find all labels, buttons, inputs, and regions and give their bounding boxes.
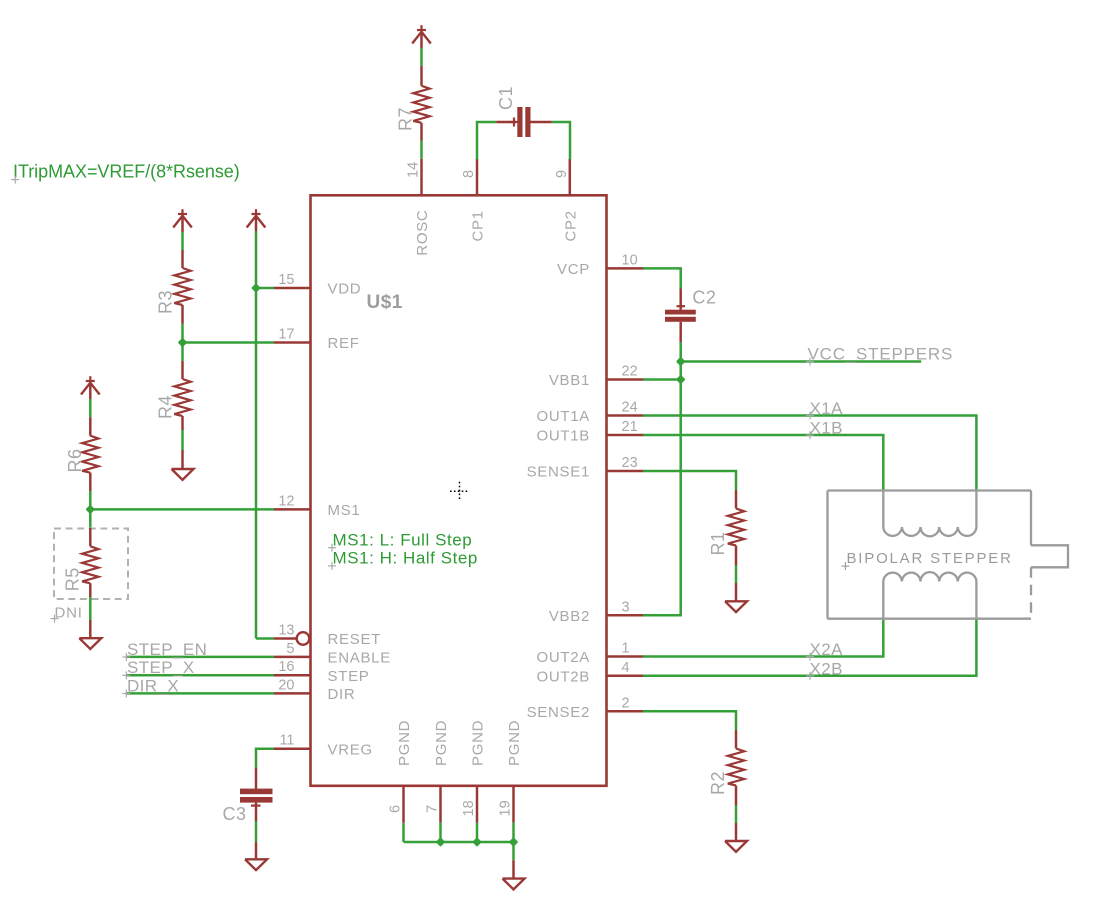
svg-text:ENABLE: ENABLE	[328, 650, 391, 667]
wire net X1B pin 21 to stepper	[643, 435, 883, 491]
pin 11 VREG	[274, 747, 311, 750]
svg-text:OUT2A: OUT2A	[536, 649, 590, 666]
VCC symbol above R7	[417, 29, 426, 31]
svg-text:16: 16	[278, 659, 294, 675]
svg-text:18: 18	[461, 800, 477, 816]
resistor R4	[181, 361, 184, 379]
wire net STEP_EN	[126, 656, 274, 659]
svg-text:11: 11	[279, 733, 294, 749]
svg-text:12: 12	[278, 493, 294, 509]
ground below PGND bus	[503, 879, 525, 890]
pin 15 VDD	[274, 287, 311, 290]
wire R4 to ground	[181, 430, 184, 450]
op-amp U1 IC body A4983 stepper driver	[311, 195, 607, 786]
resistor R1	[735, 490, 738, 509]
svg-text:X1A: X1A	[810, 399, 844, 418]
svg-text:22: 22	[622, 364, 638, 380]
capacitor C2	[679, 289, 682, 310]
pin 6 PGND	[402, 786, 405, 823]
svg-text:VBB1: VBB1	[549, 372, 590, 389]
node REF junction	[178, 338, 188, 348]
svg-text:C2: C2	[692, 288, 716, 308]
DNI dashed box around R5	[54, 529, 128, 600]
node VBB1 junction	[676, 375, 686, 385]
svg-text:X1B: X1B	[810, 419, 843, 438]
svg-text:8: 8	[461, 170, 477, 178]
svg-text:U$1: U$1	[367, 292, 403, 313]
node MS1 junction	[85, 505, 95, 515]
wire REF junction to pin 17	[183, 341, 275, 344]
svg-text:R3: R3	[156, 290, 176, 314]
pin 5 ENABLE	[274, 656, 311, 659]
svg-text:23: 23	[622, 455, 638, 471]
wire pin 8 to C1	[477, 122, 496, 160]
svg-text:R5: R5	[63, 567, 83, 591]
node PGND junction pin 18	[472, 837, 482, 847]
svg-text:9: 9	[554, 170, 570, 178]
svg-text:5: 5	[286, 641, 294, 657]
pin 14 ROSC	[420, 159, 423, 196]
wire net DIR_X	[126, 692, 274, 695]
wire C3 to ground	[255, 821, 258, 842]
pin 17 REF	[274, 341, 311, 344]
capacitor C1	[496, 121, 516, 124]
resistor R5	[89, 528, 92, 546]
node VCC_STEPPERS junction	[676, 357, 686, 367]
wire junction to R5	[89, 509, 92, 528]
ground below R2	[725, 841, 747, 852]
pin 3 VBB2	[607, 614, 644, 617]
wire junction to pin 15	[256, 287, 274, 290]
svg-text:19: 19	[498, 800, 514, 816]
svg-text:7: 7	[425, 805, 441, 813]
wire pin 23 SENSE1 to R1	[643, 471, 736, 490]
pin 7 PGND	[439, 786, 442, 823]
wire R7 to pin 14	[420, 141, 423, 159]
wire PGND bus	[402, 823, 405, 842]
wire pin 10 to C2	[643, 268, 681, 288]
pin 16 STEP	[274, 674, 311, 677]
svg-text:ROSC: ROSC	[414, 210, 431, 256]
svg-text:DIR: DIR	[328, 686, 356, 703]
svg-text:PGND: PGND	[433, 720, 450, 766]
svg-text:6: 6	[388, 805, 404, 813]
svg-text:R2: R2	[708, 771, 728, 795]
svg-text:VBB2: VBB2	[549, 608, 590, 625]
wire pin 11 to C3	[256, 749, 274, 768]
wire R3 to REF junction	[181, 324, 184, 343]
wire R2 to ground	[735, 805, 738, 823]
wire VDD rail to pin 13 RESET	[256, 637, 274, 640]
svg-text:OUT2B: OUT2B	[536, 668, 590, 685]
wire R1 to ground	[735, 565, 738, 583]
wire VCC rail stub	[255, 216, 258, 231]
wire pin 22 to VBB rail	[643, 378, 681, 381]
wire C1 to pin 9	[552, 122, 570, 160]
svg-text:OUT1A: OUT1A	[536, 408, 590, 425]
pin 1 OUT2A	[607, 655, 644, 658]
svg-text:OUT1B: OUT1B	[536, 428, 590, 445]
svg-text:24: 24	[622, 400, 638, 416]
pin 10 VCP	[607, 267, 644, 270]
svg-text:1: 1	[622, 641, 630, 657]
svg-text:PGND: PGND	[396, 720, 413, 766]
svg-text:ITripMAX=VREF/(8*Rsense): ITripMAX=VREF/(8*Rsense)	[13, 162, 240, 182]
wire junction to R4	[181, 343, 184, 362]
svg-text:C3: C3	[223, 804, 247, 824]
svg-text:STEP_X: STEP_X	[127, 658, 195, 677]
svg-text:MS1: MS1	[328, 502, 361, 519]
svg-text:13: 13	[278, 623, 294, 639]
wire net X2B pin 4 to stepper	[643, 619, 976, 676]
svg-text:R1: R1	[708, 531, 728, 555]
stepper coil 1 (top winding)	[883, 491, 976, 537]
pin 21 OUT1B	[607, 434, 644, 437]
node PGND junction pin 7	[436, 837, 446, 847]
svg-text:3: 3	[622, 599, 630, 615]
capacitor C3	[255, 768, 258, 789]
wire PGND bus to ground	[512, 842, 515, 860]
node VDD-pin15 junction	[251, 283, 261, 293]
wire R5 to ground	[89, 597, 92, 620]
resistor R7	[420, 66, 423, 86]
svg-text:RESET: RESET	[328, 631, 382, 648]
ground below R5	[79, 638, 101, 649]
resistor R6	[89, 417, 92, 436]
wire net STEP_X	[126, 674, 274, 677]
svg-text:X2B: X2B	[810, 659, 843, 678]
resistor R3	[181, 250, 184, 268]
svg-text:MS1: L: Full Step: MS1: L: Full Step	[333, 531, 473, 550]
wire net X1A pin 24 to stepper	[643, 416, 976, 491]
svg-text:MS1: H: Half Step: MS1: H: Half Step	[333, 548, 478, 567]
svg-text:REF: REF	[328, 335, 360, 352]
bipolar stepper motor M1 body	[828, 489, 1032, 491]
svg-text:R4: R4	[156, 395, 176, 419]
svg-text:SENSE2: SENSE2	[527, 704, 590, 721]
wire C2 down VBB rail to pin 3	[643, 342, 681, 615]
svg-text:BIPOLAR STEPPER: BIPOLAR STEPPER	[847, 550, 1013, 567]
pin 23 SENSE1	[607, 470, 644, 473]
svg-text:2: 2	[622, 695, 630, 711]
pin 12 MS1	[274, 508, 311, 511]
ground below R4	[172, 469, 194, 480]
svg-text:20: 20	[278, 677, 294, 693]
svg-text:15: 15	[278, 272, 294, 288]
svg-text:DNI: DNI	[55, 605, 83, 622]
svg-text:VREG: VREG	[328, 741, 373, 758]
pin 24 OUT1A	[607, 414, 644, 417]
svg-text:VCP: VCP	[557, 261, 590, 278]
wire VCC to R7	[420, 32, 423, 48]
wire VDD rail vertical	[255, 231, 258, 639]
svg-text:C1: C1	[496, 86, 516, 110]
ground below R1	[725, 601, 747, 612]
pin 8 CP1	[476, 159, 479, 196]
svg-text:17: 17	[278, 327, 294, 343]
pin 13 RESET	[274, 637, 296, 640]
svg-text:STEP: STEP	[328, 668, 370, 685]
svg-text:STEP_EN: STEP_EN	[127, 640, 207, 659]
pin 4 OUT2B	[607, 675, 644, 678]
stepper coil 2 (bottom winding)	[883, 572, 976, 619]
wire R6 to MS1 junction	[89, 491, 92, 509]
svg-text:DIR_X: DIR_X	[127, 676, 179, 695]
svg-text:VCC_STEPPERS: VCC_STEPPERS	[808, 345, 954, 364]
svg-text:PGND: PGND	[506, 720, 523, 766]
pin 22 VBB1	[607, 378, 644, 381]
wire net X2A pin 1 to stepper	[643, 619, 883, 657]
svg-text:CP2: CP2	[562, 210, 579, 241]
svg-text:PGND: PGND	[470, 720, 487, 766]
svg-text:SENSE1: SENSE1	[527, 464, 590, 481]
pin 9 CP2	[569, 159, 572, 196]
svg-text:CP1: CP1	[470, 210, 487, 241]
ground below C3	[245, 859, 267, 870]
svg-text:21: 21	[622, 419, 638, 435]
svg-text:R6: R6	[65, 448, 85, 472]
VCC symbol above R6	[86, 380, 95, 382]
svg-text:X2A: X2A	[810, 640, 844, 659]
wire pin 2 SENSE2 to R2	[643, 711, 736, 730]
pin 18 PGND	[476, 786, 479, 823]
node PGND junction pin 19	[509, 837, 519, 847]
svg-text:R7: R7	[396, 107, 416, 131]
wire net VCC_STEPPERS	[681, 360, 922, 363]
wire MS1 junction to pin 12	[90, 508, 274, 511]
svg-text:10: 10	[622, 252, 638, 268]
pin 19 PGND	[512, 786, 515, 823]
svg-text:VDD: VDD	[328, 281, 362, 298]
VCC symbol above VDD rail	[252, 213, 261, 215]
svg-text:14: 14	[406, 162, 422, 178]
resistor R2	[735, 730, 738, 749]
svg-text:4: 4	[622, 660, 630, 676]
stepper shaft	[1031, 545, 1068, 567]
VCC symbol above R3	[178, 213, 187, 215]
sheet origin crosshair	[450, 490, 469, 492]
wire VCC to R6	[89, 383, 92, 399]
pin 20 DIR	[274, 692, 311, 695]
pin 2 SENSE2	[607, 710, 644, 713]
wire VCC to R3	[181, 216, 184, 232]
